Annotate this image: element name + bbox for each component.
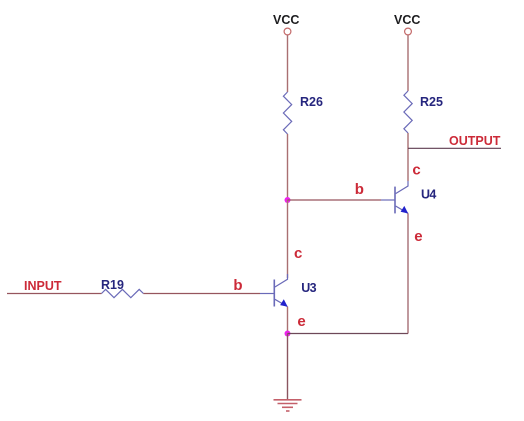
power symbol VCC left — [273, 13, 299, 35]
power symbol VCC right — [394, 13, 420, 35]
resistor R19 — [101, 278, 143, 298]
transistor U4 — [381, 181, 436, 214]
svg-text:U3: U3 — [301, 281, 316, 295]
svg-text:e: e — [297, 313, 305, 330]
wire R25 down to U4 collector — [407, 133, 409, 181]
svg-text:INPUT: INPUT — [24, 279, 62, 293]
svg-text:U4: U4 — [421, 187, 436, 201]
svg-text:c: c — [412, 161, 420, 178]
svg-text:b: b — [233, 277, 242, 294]
wire U4 base — [288, 199, 382, 201]
resistor R25 — [404, 91, 443, 133]
wire R19 to U3 base — [143, 293, 260, 295]
wire R26 to node — [287, 134, 289, 200]
svg-text:R26: R26 — [300, 95, 323, 109]
svg-text:VCC: VCC — [273, 13, 299, 27]
svg-text:R25: R25 — [420, 95, 443, 109]
wire VCC left to R26 — [287, 35, 289, 92]
node junction at R26 / U4 base — [285, 197, 291, 203]
svg-text:e: e — [414, 228, 422, 245]
wire emitter bus horizontal — [288, 333, 409, 335]
wire U4 emitter vertical — [407, 213, 409, 333]
ground — [274, 400, 302, 411]
svg-text:VCC: VCC — [394, 13, 420, 27]
transistor U3 — [260, 274, 317, 307]
node junction at U3 emitter — [285, 331, 291, 337]
svg-text:c: c — [294, 245, 302, 262]
wire VCC right to R25 — [407, 35, 409, 91]
wire node to ground — [287, 334, 289, 400]
wire node down to U3 collector — [287, 200, 289, 278]
svg-text:OUTPUT: OUTPUT — [449, 134, 501, 148]
svg-text:b: b — [355, 181, 364, 198]
wire OUTPUT net — [408, 147, 501, 149]
svg-text:R19: R19 — [101, 278, 124, 292]
wire INPUT net — [7, 293, 102, 295]
resistor R26 — [283, 92, 323, 134]
wire U3 emitter down to node — [287, 307, 289, 334]
